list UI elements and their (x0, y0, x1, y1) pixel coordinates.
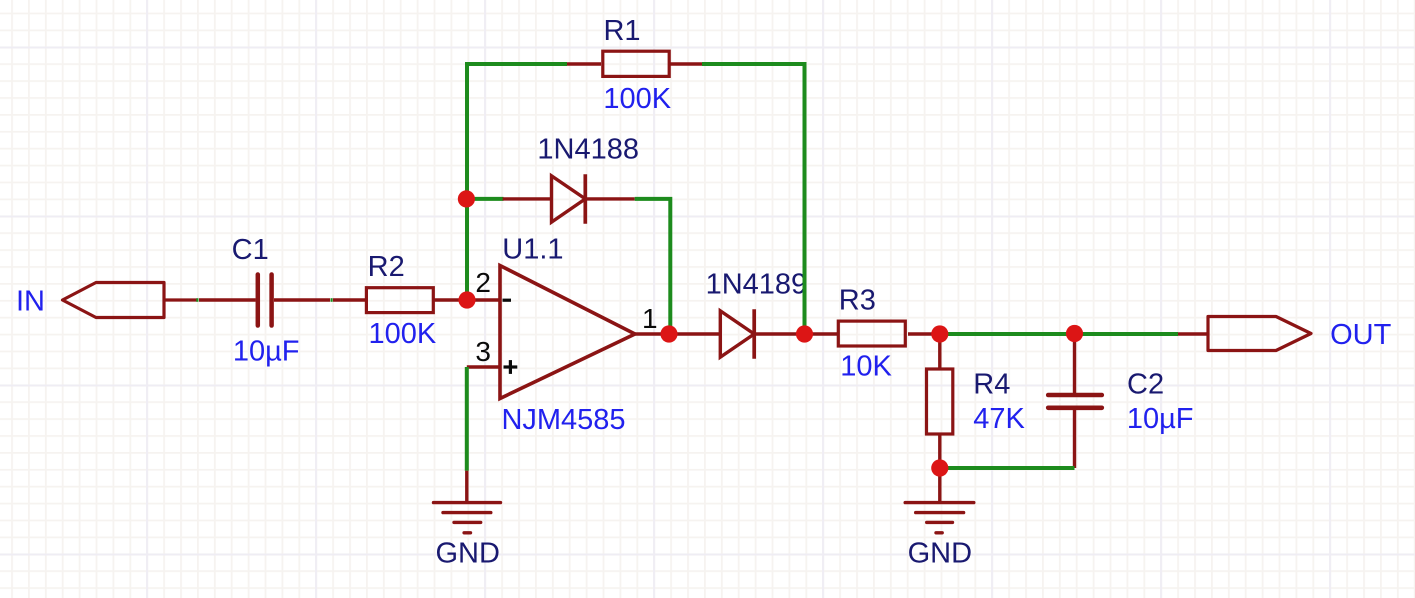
op-amp plus mark (504, 360, 518, 374)
svg-text:IN: IN (16, 286, 45, 318)
svg-text:R2: R2 (368, 251, 405, 283)
svg-text:1N4189: 1N4189 (706, 268, 808, 300)
capacitor C2 (1048, 334, 1102, 468)
resistor R4 (927, 334, 953, 468)
svg-text:1N4188: 1N4188 (537, 133, 639, 165)
wire R3 node to C2 node (940, 332, 1075, 336)
svg-text:3: 3 (475, 336, 491, 367)
junction inverting input node (458, 291, 475, 308)
port IN (63, 283, 197, 318)
resistor R3 (805, 321, 940, 346)
svg-text:2: 2 (475, 267, 491, 298)
resistor R2 (333, 288, 467, 313)
svg-text:1: 1 (642, 303, 658, 334)
svg-text:GND: GND (435, 537, 499, 569)
svg-text:R3: R3 (839, 285, 876, 317)
wire node A to diode D1 (466, 197, 503, 201)
port OUT (1178, 317, 1311, 351)
svg-text:NJM4585: NJM4585 (501, 404, 625, 436)
svg-text:10K: 10K (840, 351, 892, 383)
svg-text:R4: R4 (973, 369, 1010, 401)
junction R1/D2 node (796, 325, 813, 342)
junction R4/C2 bottom node (931, 459, 948, 476)
svg-text:C1: C1 (232, 234, 269, 266)
junction op-amp output node (660, 325, 677, 342)
diode D2 1N4189 (669, 309, 805, 359)
svg-text:GND: GND (908, 537, 972, 569)
svg-text:R1: R1 (603, 15, 640, 47)
svg-text:10µF: 10µF (233, 336, 300, 368)
wire R1 to output node (702, 64, 805, 334)
wire pin3 to GND (465, 367, 469, 471)
svg-text:U1.1: U1.1 (502, 234, 563, 266)
wire C2 node to OUT (1075, 332, 1179, 336)
op-amp U1 (467, 266, 669, 399)
svg-text:10µF: 10µF (1127, 403, 1194, 435)
svg-text:C2: C2 (1127, 369, 1164, 401)
wire stub C1-R2 (331, 298, 333, 302)
ground GND (left) (434, 471, 501, 533)
op-amp minus mark (503, 299, 512, 302)
capacitor C1 (199, 275, 330, 326)
wire inverting node to R1 feedback (467, 64, 567, 300)
junction R3/R4 node (931, 325, 948, 342)
diode D1 1N4188 (503, 174, 635, 224)
wire D1 to output node (635, 199, 671, 334)
svg-text:100K: 100K (369, 318, 437, 350)
ground GND (right) (905, 468, 974, 533)
wire R4 bottom to C2 bottom (940, 466, 1075, 470)
svg-text:100K: 100K (603, 83, 671, 115)
junction node A (feedback/diode tap) (458, 190, 475, 207)
svg-text:47K: 47K (973, 403, 1025, 435)
svg-text:OUT: OUT (1330, 319, 1392, 351)
wire stub IN-C1 (196, 298, 198, 302)
resistor R1 (567, 51, 702, 76)
junction C2 top node (1066, 325, 1083, 342)
